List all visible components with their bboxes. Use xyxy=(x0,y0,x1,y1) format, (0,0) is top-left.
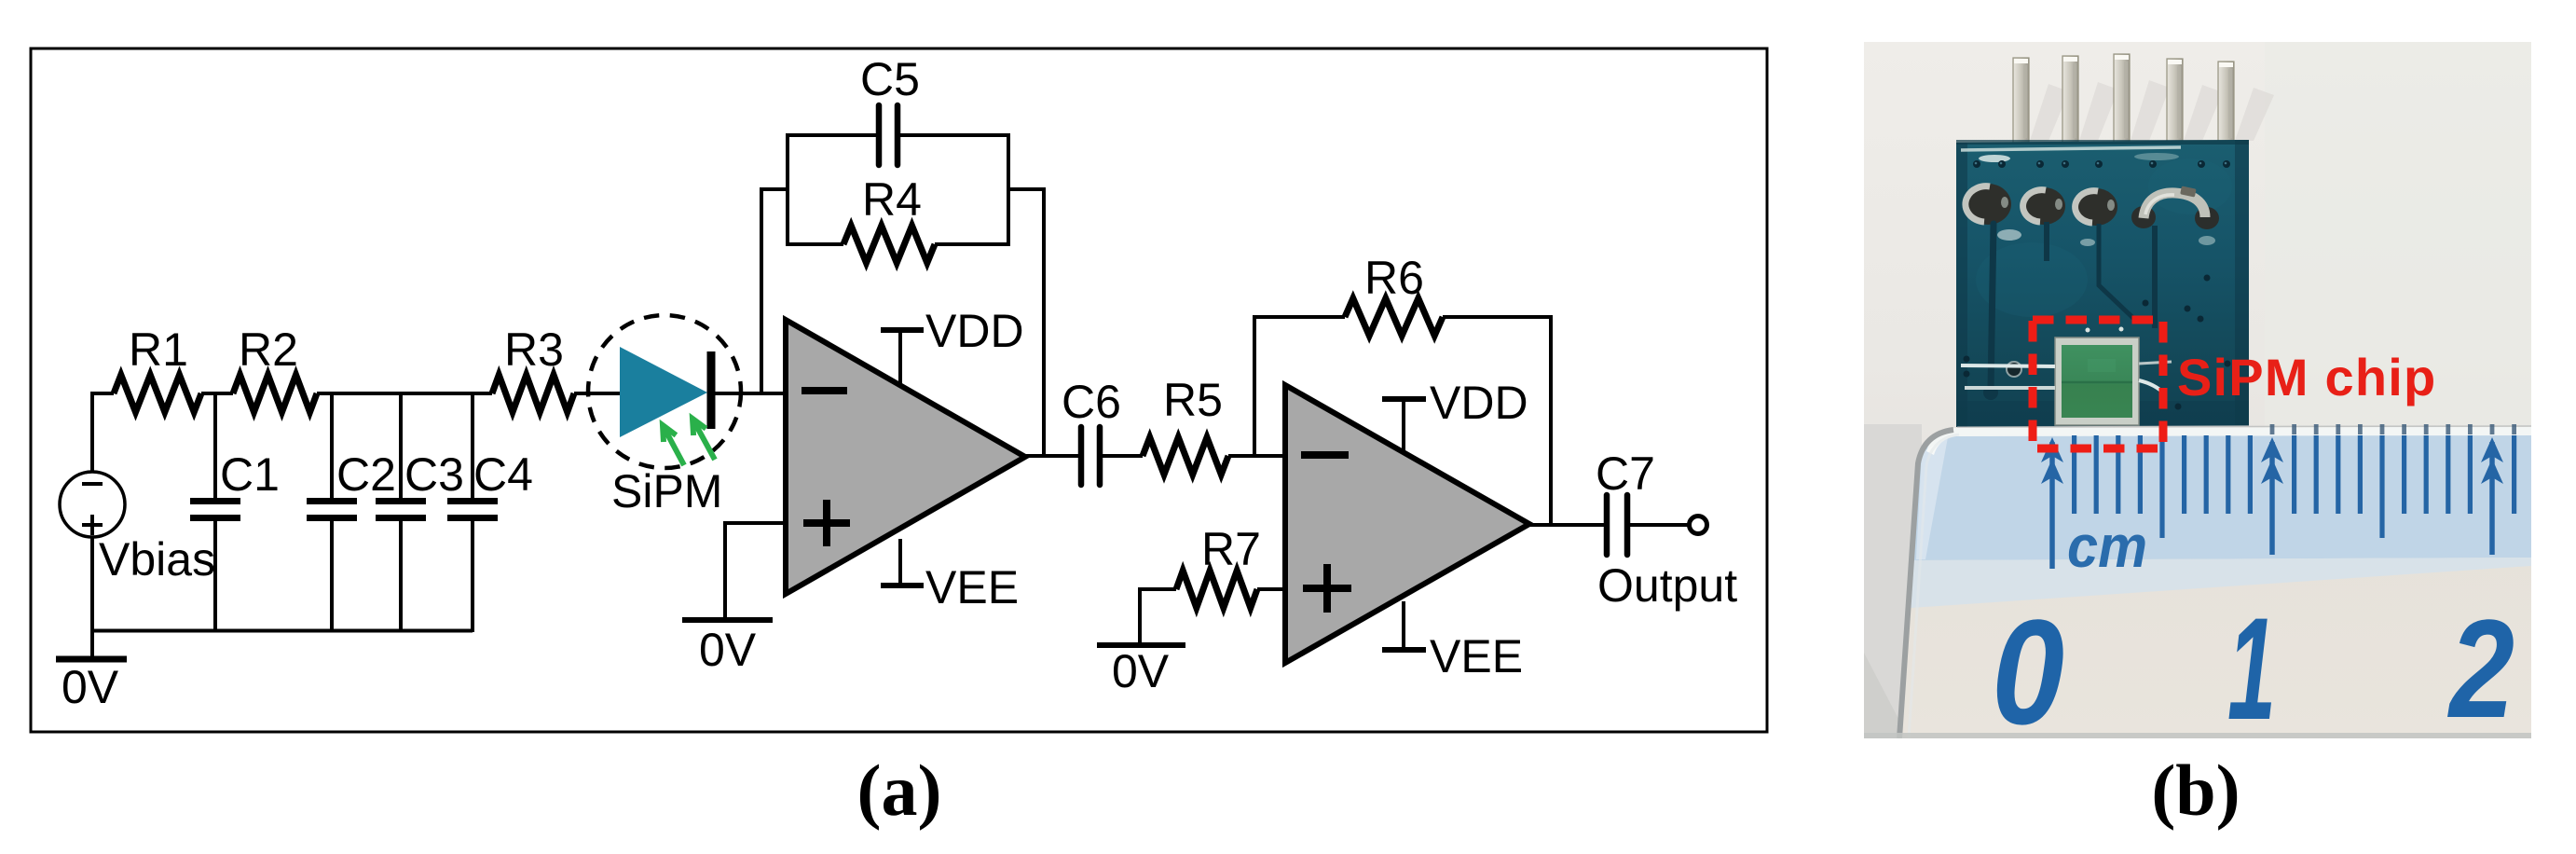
node between R1 and R2 / wire xyxy=(201,392,233,395)
svg-text:C3: C3 xyxy=(404,448,464,501)
capacitor C7 xyxy=(1604,495,1610,555)
feedback bottom rail wire left xyxy=(786,242,843,246)
svg-text:R1: R1 xyxy=(129,324,188,376)
feedback box left vertical wire xyxy=(786,133,789,246)
PCB traces xyxy=(1991,224,1994,392)
ground 0V (U2) xyxy=(1097,642,1185,648)
svg-text:R5: R5 xyxy=(1163,374,1223,426)
bond wires right xyxy=(2139,380,2164,393)
op-amp U1 xyxy=(786,320,1025,594)
wire SiPM to op-amp U1 inverting input xyxy=(711,392,786,395)
U1 VDD bar xyxy=(881,327,924,333)
svg-text:R2: R2 xyxy=(239,324,298,376)
feedback top rail wire from C5 xyxy=(899,133,1010,137)
wire C4 top xyxy=(471,393,474,499)
U1 VEE stem wire xyxy=(898,539,902,585)
wire C2 top xyxy=(330,393,334,499)
green arrow 2 (light) xyxy=(692,419,715,460)
U2 VDD stem wire xyxy=(1402,399,1405,451)
svg-text:C5: C5 xyxy=(860,53,920,105)
capacitor C5 xyxy=(876,105,883,165)
svg-text:SiPM chip: SiPM chip xyxy=(2177,348,2436,406)
feedback top wire right (U2) xyxy=(1443,315,1553,319)
resistor R3 xyxy=(492,375,574,412)
feedback right vertical wire to output xyxy=(1042,187,1046,456)
wire C2 bottom xyxy=(330,520,334,632)
U1 inverting input minus sign xyxy=(802,387,847,394)
ruler body xyxy=(1901,430,2531,738)
U2 inverting input minus sign xyxy=(1301,451,1349,459)
wire R7 left to ground xyxy=(1138,587,1176,591)
panel (a) schematic border frame xyxy=(31,48,1767,732)
solder blobs xyxy=(1965,184,2011,225)
ground 0V (U1) xyxy=(682,617,773,623)
U1 VEE bar xyxy=(881,583,924,588)
SiPM chip silver frame xyxy=(2055,337,2139,425)
capacitor C1 xyxy=(190,498,240,504)
SiPM chip green die xyxy=(2062,345,2132,418)
bottom ground rail wire xyxy=(92,629,473,633)
feedback top rail wire to C5 xyxy=(786,133,877,137)
ruler corner glare xyxy=(1916,437,1948,559)
red dashed box around SiPM chip xyxy=(2033,320,2163,448)
wire R2 to R3 xyxy=(317,392,492,395)
U1 VDD stem wire xyxy=(898,330,902,384)
wire C3 top xyxy=(399,393,403,499)
wire R7 to U2 + xyxy=(1257,587,1285,591)
silver jumper wire component xyxy=(2131,206,2156,228)
wire C1 bottom xyxy=(213,520,217,632)
wire C6 to R5 xyxy=(1103,454,1143,458)
feedback box right vertical wire xyxy=(1007,133,1010,246)
resistor R5 xyxy=(1143,437,1228,475)
feedback bottom rail wire right xyxy=(935,242,1010,246)
svg-text:2: 2 xyxy=(2446,590,2514,747)
wire Vbias top to main node xyxy=(90,392,94,472)
svg-text:SiPM: SiPM xyxy=(611,465,722,517)
SiPM dashed circle xyxy=(588,315,741,468)
wire R3 to SiPM xyxy=(574,392,630,395)
PCB header pins (5) xyxy=(2013,58,2029,143)
PCB glossy top reflection xyxy=(1961,147,2181,150)
U1 non-inverting input plus sign xyxy=(803,519,850,527)
svg-text:R7: R7 xyxy=(1201,523,1261,575)
svg-text:C6: C6 xyxy=(1062,376,1121,428)
PCB via holes row xyxy=(1973,160,1980,168)
pin shadows on background xyxy=(2030,84,2069,141)
green arrow 1 (light) xyxy=(663,425,684,465)
wire R5 to U2 inverting input xyxy=(1228,454,1285,458)
svg-text:VEE: VEE xyxy=(925,561,1019,613)
wire C7 to output terminal xyxy=(1630,523,1690,527)
svg-text:Output: Output xyxy=(1597,559,1737,612)
U2 VEE bar xyxy=(1382,647,1426,653)
svg-text:1: 1 xyxy=(2227,588,2276,751)
U2 output wire xyxy=(1529,523,1604,527)
SiPM diode triangle xyxy=(620,347,707,437)
feedback left vertical wire from inverting node xyxy=(760,187,763,393)
ruler top bright edge xyxy=(1926,427,2531,455)
svg-text:0V: 0V xyxy=(699,624,757,676)
svg-text:Vbias: Vbias xyxy=(99,533,215,585)
svg-text:R6: R6 xyxy=(1364,252,1424,304)
svg-text:VDD: VDD xyxy=(925,305,1024,357)
feedback connector wire right xyxy=(1007,187,1046,191)
svg-text:0: 0 xyxy=(1992,588,2064,755)
svg-text:C7: C7 xyxy=(1596,448,1655,500)
resistor R1 xyxy=(114,375,201,412)
capacitor C4 xyxy=(447,498,498,504)
svg-text:0V: 0V xyxy=(62,661,119,713)
svg-text:C1: C1 xyxy=(220,448,280,501)
resistor R6 xyxy=(1345,298,1443,336)
feedback connector wire left xyxy=(760,187,789,191)
U1 non-inverting input wire xyxy=(725,521,786,525)
wire C1 top xyxy=(213,393,217,499)
svg-text:VEE: VEE xyxy=(1430,630,1523,682)
wire main node to R1 xyxy=(90,392,114,395)
U2 VEE stem wire xyxy=(1402,601,1405,650)
svg-text:0V: 0V xyxy=(1112,645,1170,697)
resistor R7 xyxy=(1176,571,1257,608)
resistor R2 xyxy=(233,375,317,412)
svg-text:cm: cm xyxy=(2067,513,2147,580)
bond via pad left xyxy=(2007,362,2021,377)
PCB scattered vias xyxy=(1964,356,1970,363)
U2 non-inverting input plus sign xyxy=(1303,585,1351,592)
feedback vertical wire (U2) xyxy=(1253,315,1256,456)
svg-text:C2: C2 xyxy=(336,448,396,501)
wire C3 bottom xyxy=(399,520,403,632)
svg-text:R3: R3 xyxy=(504,324,564,376)
svg-text:(b): (b) xyxy=(2151,750,2240,831)
ruler tick marks xyxy=(2049,442,2055,569)
wire stem to ground xyxy=(90,630,94,659)
bond wires left xyxy=(1961,365,2055,366)
SiPM cathode bar xyxy=(707,351,716,429)
capacitor C3 xyxy=(376,498,426,504)
feedback top wire left (U2) xyxy=(1253,315,1345,319)
voltage source Vbias xyxy=(60,472,125,537)
capacitor C2 xyxy=(307,498,357,504)
ground 0V (left) xyxy=(56,656,127,663)
photo bottom edge xyxy=(1864,733,2531,738)
output terminal node xyxy=(1690,517,1707,534)
svg-text:C4: C4 xyxy=(473,448,533,501)
capacitor C6 xyxy=(1078,427,1085,485)
svg-text:R4: R4 xyxy=(862,173,922,226)
ruler blue band xyxy=(1913,430,2531,560)
ruler left bevel edge xyxy=(1899,430,1953,738)
resistor R4 xyxy=(843,226,935,263)
U2 VDD bar xyxy=(1382,396,1426,402)
wire C4 bottom xyxy=(471,520,474,632)
wire Vbias bottom to ground rail xyxy=(90,537,94,632)
op-amp U2 xyxy=(1285,385,1529,663)
svg-text:VDD: VDD xyxy=(1430,377,1528,429)
wire down to ground (U1 +) xyxy=(723,521,727,620)
feedback right vertical wire (U2) xyxy=(1549,315,1553,525)
PCB board (teal) xyxy=(1956,140,2249,427)
U1 output wire xyxy=(1025,454,1078,458)
svg-text:(a): (a) xyxy=(857,750,942,831)
